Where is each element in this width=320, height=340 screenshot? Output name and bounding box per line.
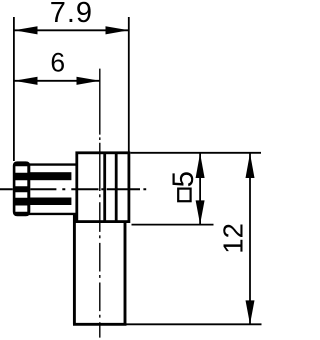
barrel top outline (29, 163, 77, 165)
dimension line 6 (14, 80, 100, 82)
plug snap ring (ribbed) (13, 161, 31, 216)
extension line left (plug face) (13, 17, 15, 161)
svg-text:5: 5 (167, 171, 200, 187)
body block outline (77, 153, 129, 222)
arrow 6 right (77, 77, 100, 85)
arrow square5 up (196, 153, 205, 178)
body groove line 2 (115, 153, 118, 222)
barrel bottom outline (29, 213, 77, 215)
outer contact bar top (29, 172, 71, 180)
arrow 6 left (14, 77, 37, 85)
outer contact bar bottom (29, 198, 71, 206)
dimension line 7.9 (14, 29, 129, 31)
arrow 12 down (246, 300, 255, 324)
vertical centerline (tube axis) (99, 69, 101, 338)
extension line 12 bottom (127, 323, 262, 325)
extension line right (body rear) (128, 17, 130, 153)
extension line top right (130, 152, 261, 154)
horizontal centerline (plug axis) (0, 188, 146, 190)
square symbol of square5 (178, 189, 190, 202)
arrow 7.9 left (14, 26, 37, 34)
arrow 7.9 right (106, 26, 129, 34)
cable tube right edge (124, 222, 127, 325)
svg-text:6: 6 (50, 48, 65, 78)
cable tube left edge (73, 214, 76, 324)
cable tube bottom edge (73, 323, 127, 326)
arrow 12 up (246, 153, 255, 178)
body groove line 1 (103, 153, 106, 222)
svg-text:12: 12 (218, 223, 249, 254)
extension line square5 bottom (132, 224, 214, 226)
dimension line 12 (249, 153, 251, 324)
arrow square5 down (196, 200, 205, 224)
dimension line square5 (199, 153, 201, 224)
svg-text:7.9: 7.9 (50, 0, 93, 29)
